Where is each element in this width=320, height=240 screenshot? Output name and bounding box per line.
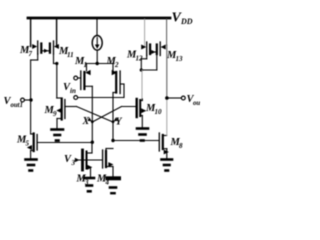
wire node Y column bbox=[112, 93, 114, 141]
wire V3 to gates of M3 M4 bbox=[79, 159, 102, 161]
wire Vout2 column upper bbox=[166, 45, 168, 98]
ground M9 bbox=[52, 130, 64, 141]
wire I1 to tail node bbox=[96, 50, 98, 63]
svg-text:3: 3 bbox=[71, 159, 76, 167]
VDD rail bbox=[28, 17, 170, 20]
wire M7-M11 gate link with arrow bbox=[41, 50, 50, 52]
wire mirror node to M10 drain (faint) bbox=[141, 70, 143, 99]
wire tail rail bbox=[87, 63, 114, 65]
node X junction bbox=[91, 120, 94, 123]
svg-text:3: 3 bbox=[84, 179, 89, 187]
ground M5 bbox=[26, 160, 37, 171]
transistor M1 bbox=[74, 64, 93, 90]
node Y junction at M4 drain bbox=[111, 139, 114, 142]
wire rail to M11 source bbox=[56, 19, 58, 47]
wire M9 gate to node X arm bbox=[65, 106, 77, 108]
svg-text:X: X bbox=[82, 116, 90, 127]
node junction M12 drain bbox=[140, 68, 143, 71]
node tail junction bbox=[96, 62, 99, 65]
svg-text:1: 1 bbox=[84, 61, 88, 69]
node Vin label and terminals bbox=[63, 82, 76, 95]
node junction X / M5 gate / M3 drain bbox=[91, 141, 94, 144]
svg-text:out2: out2 bbox=[193, 100, 200, 107]
wire M12-M13 gate link with arrow bbox=[150, 51, 157, 53]
svg-text:12: 12 bbox=[136, 55, 144, 63]
transistor M2 bbox=[112, 64, 124, 98]
svg-text:8: 8 bbox=[179, 142, 183, 150]
node junction M11 drain bbox=[55, 62, 58, 65]
svg-text:out1: out1 bbox=[11, 102, 23, 109]
wire Y arm to M10 gate bbox=[122, 106, 137, 108]
wire M5 gate to node X bbox=[37, 142, 92, 144]
transistor M12 bbox=[141, 42, 150, 70]
ground M8 bbox=[162, 160, 173, 171]
wire cross diagonal Y bbox=[92, 107, 121, 123]
wire M7 drain to Vout1 to M5 bbox=[30, 60, 32, 134]
node M9 label bbox=[44, 105, 58, 118]
node M7 label bbox=[19, 45, 33, 58]
transistor M7 bbox=[31, 41, 42, 60]
node Y label with arrow bbox=[114, 117, 123, 128]
ground M4 bbox=[108, 178, 120, 193]
node M11 label bbox=[58, 46, 74, 59]
svg-text:2: 2 bbox=[114, 61, 119, 69]
ground M3 bbox=[84, 178, 94, 191]
svg-text:DD: DD bbox=[180, 17, 193, 26]
svg-text:13: 13 bbox=[176, 55, 184, 63]
wire node X column bbox=[91, 86, 93, 142]
node M8 label bbox=[170, 137, 184, 150]
svg-text:10: 10 bbox=[155, 108, 163, 116]
node M2 label bbox=[106, 56, 120, 69]
transistor M10 bbox=[137, 99, 147, 127]
svg-text:5: 5 bbox=[26, 140, 30, 148]
node M10 label bbox=[145, 103, 162, 116]
node Vout1 bbox=[29, 98, 32, 101]
ground M10 bbox=[137, 129, 148, 141]
wire cross diagonal X bbox=[77, 107, 114, 123]
transistor M13 bbox=[141, 42, 165, 70]
svg-text:11: 11 bbox=[67, 51, 74, 59]
node M3 label bbox=[76, 174, 90, 187]
transistor M5 bbox=[27, 134, 37, 159]
node X label with arrow bbox=[82, 116, 92, 127]
node VDD label bbox=[172, 11, 193, 27]
wire rail to M12 source (faint) bbox=[144, 19, 146, 47]
wire rail to M13 source bbox=[166, 19, 168, 45]
node M12 label bbox=[126, 50, 143, 63]
node Y junction bbox=[112, 120, 115, 123]
node Vout2 bbox=[165, 96, 169, 100]
transistor M3 bbox=[83, 150, 93, 177]
current source I1 bbox=[92, 36, 102, 51]
transistor M9 bbox=[56, 99, 65, 129]
svg-text:Y: Y bbox=[116, 117, 123, 128]
wire Vout2 to M8 drain (faint) bbox=[166, 98, 168, 136]
svg-text:in: in bbox=[70, 87, 76, 95]
wire M3 drain stub bbox=[91, 143, 93, 154]
node M4 label bbox=[96, 174, 110, 187]
wire M11 drain to M9 drain bbox=[56, 64, 58, 99]
svg-text:4: 4 bbox=[105, 179, 110, 187]
svg-text:7: 7 bbox=[29, 50, 33, 58]
node M1 label bbox=[74, 56, 87, 69]
node M13 label bbox=[166, 50, 183, 63]
transistor M4 bbox=[103, 149, 114, 177]
node V3 label and terminal bbox=[64, 154, 76, 167]
transistor M11 bbox=[50, 41, 59, 64]
transistor M8 bbox=[159, 133, 169, 158]
wire node Y to M8 gate bbox=[113, 140, 159, 142]
wire Vin lower terminal to M2 gate bbox=[78, 97, 124, 99]
svg-text:9: 9 bbox=[53, 110, 57, 118]
wire rail to M7 source bbox=[30, 19, 32, 47]
node M5 label bbox=[16, 135, 30, 148]
wire rail to current source I1 bbox=[96, 19, 98, 36]
